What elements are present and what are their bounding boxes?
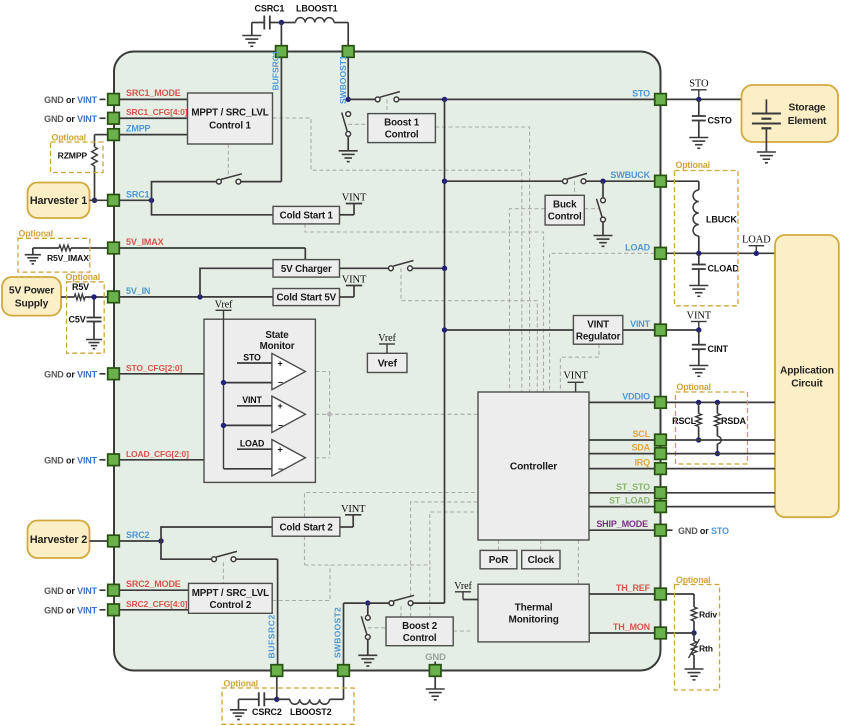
svg-text:Control 1: Control 1 (209, 121, 251, 132)
capacitor CSRC2 (239, 698, 259, 700)
svg-text:RZMPP: RZMPP (58, 151, 88, 161)
wire ST_LOAD (589, 506, 655, 508)
ground below CSRC2 (230, 709, 247, 711)
svg-text:Vref: Vref (378, 358, 398, 370)
wire BUFSRC1 column (280, 57, 282, 181)
svg-text:Buck: Buck (553, 200, 577, 211)
switch buck (563, 179, 568, 184)
svg-text:Vref: Vref (215, 300, 233, 311)
inductor LBUCK (693, 190, 699, 236)
wire VDDIO external (666, 401, 775, 403)
wire STO comp minus (224, 382, 272, 384)
ground below CINT (689, 365, 708, 367)
wire BUFSRC1 to top node (280, 23, 282, 46)
pin SRC2 (108, 535, 120, 547)
MPPT/SRC_LVL control 2 box (189, 583, 273, 613)
wire LOAD comp minus (224, 468, 272, 470)
ground below Rth (685, 668, 704, 670)
node at CSRC1/LBOOST1 junction (279, 20, 284, 25)
node vref bus 1 (221, 380, 226, 385)
resistor RSCL (698, 402, 700, 413)
wire SRC1_CFG (119, 117, 187, 119)
wire SDA external (666, 453, 775, 455)
pin LOAD (655, 248, 667, 260)
svg-text:TH_MON: TH_MON (613, 622, 650, 632)
capacitor CSRC1 (252, 22, 264, 24)
pin 5V_IN (108, 291, 120, 303)
svg-text:STO_CFG[2:0]: STO_CFG[2:0] (126, 363, 182, 373)
node LBUCK/CLOAD (696, 251, 701, 256)
wire ZMPP (119, 134, 187, 136)
svg-text:VINT: VINT (630, 319, 651, 329)
svg-text:Optional: Optional (19, 229, 53, 239)
resistor RSDA (716, 402, 718, 413)
boost 1 control box (368, 114, 436, 143)
node SRC1 (149, 198, 154, 203)
svg-text:SCL: SCL (632, 429, 650, 439)
svg-text:LOAD_CFG[2:0]: LOAD_CFG[2:0] (126, 449, 189, 459)
pin ZMPP (108, 129, 120, 141)
svg-text:GND or VINT: GND or VINT (44, 369, 98, 379)
svg-text:Boost 1: Boost 1 (384, 118, 420, 129)
svg-text:ZMPP: ZMPP (126, 124, 151, 134)
svg-text:5V Power: 5V Power (9, 286, 54, 297)
svg-text:LOAD: LOAD (742, 235, 771, 246)
cold start 5V box (273, 289, 340, 306)
PoR box (480, 550, 517, 568)
battery symbol (765, 99, 767, 113)
internal STO rail (444, 99, 446, 603)
MPPT/SRC_LVL control 1 box (188, 93, 273, 144)
wire SWBUCK external (666, 180, 699, 182)
switch 5V charger to rail (340, 267, 389, 269)
5V power supply box (2, 277, 61, 316)
thermal monitoring box (478, 584, 589, 642)
svg-text:Optional: Optional (52, 133, 86, 143)
svg-text:GND or VINT: GND or VINT (44, 605, 98, 615)
pin STO_CFG (108, 368, 120, 380)
svg-text:+: + (278, 445, 283, 455)
wire TH_MON external (666, 632, 694, 634)
node RZMPP to harvester wire (92, 198, 97, 203)
pin SRC2_CFG (108, 604, 120, 616)
resistor R5V (61, 296, 74, 298)
svg-text:SWBOOST2: SWBOOST2 (333, 607, 343, 658)
node RSDA top (715, 400, 720, 405)
pin SRC1 (108, 195, 120, 207)
svg-text:+: + (278, 359, 283, 369)
svg-text:MPPT / SRC_LVL: MPPT / SRC_LVL (191, 108, 268, 119)
svg-text:LBOOST2: LBOOST2 (290, 707, 332, 717)
pin SWBOOST2 (338, 665, 350, 677)
svg-text:LBOOST1: LBOOST1 (296, 4, 338, 14)
ground below boost2 switch (358, 654, 377, 656)
wire IRQ external (666, 468, 775, 470)
pin STO (655, 94, 667, 106)
switch boost2 to ground (365, 615, 370, 620)
application circuit box (775, 235, 839, 517)
svg-text:GND or VINT: GND or VINT (44, 586, 98, 596)
svg-text:RSDA: RSDA (721, 416, 747, 426)
node vref bus 2 (221, 423, 226, 428)
wire SRC2 (119, 540, 161, 542)
pin VINT (655, 324, 667, 336)
cold start 2 box (272, 517, 340, 536)
pin SHIP_MODE (655, 524, 667, 536)
pin 5V_IMAX (108, 242, 120, 254)
svg-text:VINT: VINT (242, 395, 262, 405)
inductor LBOOST1 (281, 22, 295, 24)
ground below CLOAD (689, 285, 708, 287)
svg-text:Control: Control (403, 633, 437, 644)
harvester 2 box (28, 521, 90, 559)
svg-text:–: – (278, 377, 283, 387)
switch boost 2 (389, 601, 394, 606)
svg-text:–: – (278, 463, 283, 473)
svg-text:Cold Start 1: Cold Start 1 (280, 211, 334, 222)
svg-text:Controller: Controller (510, 462, 557, 473)
pin BUFSRC2 (271, 665, 283, 677)
svg-text:STO: STO (632, 88, 650, 98)
svg-text:GND or VINT: GND or VINT (44, 114, 98, 124)
ground below storage element (757, 151, 776, 153)
ground below GND pin (434, 676, 436, 689)
node LOAD external (754, 251, 759, 256)
svg-text:Optional: Optional (66, 272, 100, 282)
svg-text:PoR: PoR (489, 555, 509, 566)
pin TH_MON (655, 627, 667, 639)
svg-text:CSRC2: CSRC2 (252, 707, 282, 717)
node RSCL top (696, 400, 701, 405)
pin SRC1_CFG (108, 112, 120, 124)
svg-text:IRQ: IRQ (634, 458, 650, 468)
VINT regulator box (573, 316, 622, 345)
svg-text:Rdiv: Rdiv (699, 610, 717, 620)
wire ST_STO (589, 492, 655, 494)
svg-text:SWBUCK: SWBUCK (610, 170, 650, 180)
svg-text:SRC1_MODE: SRC1_MODE (126, 88, 181, 98)
wire 5V_IMAX (119, 247, 305, 249)
svg-text:GND or VINT: GND or VINT (44, 455, 98, 465)
node VINT rail (442, 327, 447, 332)
svg-text:Control: Control (385, 130, 419, 141)
svg-text:Thermal: Thermal (515, 603, 553, 614)
svg-text:LOAD: LOAD (240, 439, 264, 449)
wire ST_STO external (666, 492, 775, 494)
svg-text:VINT: VINT (341, 504, 366, 515)
svg-text:Control 2: Control 2 (210, 600, 252, 611)
svg-text:Optional: Optional (677, 382, 711, 392)
wire harvester2 to SRC2 pin (90, 540, 108, 542)
svg-text:Cold Start 5V: Cold Start 5V (276, 293, 336, 304)
Vref box (367, 353, 407, 372)
thermistor Rth (693, 633, 695, 641)
pin SWBOOST1 (342, 46, 354, 58)
state monitor box (204, 319, 315, 482)
svg-text:VINT: VINT (587, 319, 609, 330)
svg-text:Monitor: Monitor (260, 341, 295, 352)
wire SRC2_MODE (119, 589, 188, 591)
resistor R5V_IMAX (33, 247, 59, 249)
wire SWBOOST1 column (347, 57, 349, 99)
svg-text:SRC1: SRC1 (126, 189, 150, 199)
node SWBOOST2 (365, 600, 370, 605)
svg-text:Element: Element (788, 116, 827, 127)
storage element box (742, 85, 839, 142)
pin SRC2_MODE (108, 584, 120, 596)
svg-text:–: – (278, 420, 283, 430)
wire 5V_IN (119, 296, 273, 298)
resistor Rdiv (693, 601, 695, 607)
svg-text:Boost 2: Boost 2 (402, 621, 438, 632)
svg-text:Regulator: Regulator (576, 331, 621, 342)
node CSRC2/LBOOST2 (274, 697, 279, 702)
VINT flag at cold start 1 (340, 214, 355, 216)
pin IRQ (655, 463, 667, 475)
comparator STO (272, 353, 306, 389)
wire SRC2 down-branch (161, 541, 211, 559)
svg-text:SWBOOST1: SWBOOST1 (338, 55, 348, 104)
pin VDDIO (655, 397, 667, 409)
node Rdiv/Rth (691, 630, 696, 635)
capacitor C5V (93, 297, 95, 318)
svg-text:GND or STO: GND or STO (678, 526, 729, 536)
wire TH_REF external (666, 593, 694, 595)
wire STO external (666, 98, 742, 100)
svg-text:VINT: VINT (342, 275, 367, 286)
ground below CSTO (689, 137, 708, 139)
wire harvester1 to SRC1 pin (90, 199, 108, 201)
wire IRQ (589, 468, 655, 470)
svg-text:SRC2_MODE: SRC2_MODE (126, 579, 181, 589)
node SRC2 (158, 538, 163, 543)
svg-text:VINT: VINT (687, 310, 712, 321)
wire LOAD_CFG (119, 459, 204, 461)
wire SDA (589, 453, 655, 455)
wire VINT regulator row (445, 329, 574, 331)
svg-text:STO: STO (689, 79, 709, 90)
svg-text:R5V_IMAX: R5V_IMAX (47, 253, 89, 263)
ground below buck switch (594, 235, 613, 237)
node R5V/C5V (91, 294, 96, 299)
svg-text:5V_IMAX: 5V_IMAX (126, 237, 164, 247)
svg-text:STO: STO (243, 353, 261, 363)
svg-text:VDDIO: VDDIO (622, 391, 650, 401)
node SWBOOST1 (346, 97, 351, 102)
svg-text:Harvester 2: Harvester 2 (30, 534, 87, 546)
pin SDA (655, 448, 667, 460)
switch buck to ground (602, 181, 604, 197)
VINT flag at cold start 2 (340, 526, 353, 528)
wire TH_REF (589, 593, 655, 595)
harvester 1 box (28, 183, 90, 219)
svg-text:Supply: Supply (15, 298, 49, 309)
wire BUFSRC2 column (277, 559, 279, 665)
svg-text:SHIP_MODE: SHIP_MODE (596, 519, 648, 529)
node 5V rail (442, 266, 447, 271)
svg-text:Rth: Rth (699, 644, 713, 654)
svg-text:BUFSRC1: BUFSRC1 (271, 50, 281, 90)
wire SWBUCK row (445, 180, 563, 182)
svg-text:Storage: Storage (789, 102, 826, 113)
svg-text:CSTO: CSTO (708, 116, 732, 126)
boost 2 control box (386, 617, 453, 646)
svg-text:TH_REF: TH_REF (616, 583, 651, 593)
svg-text:5V_IN: 5V_IN (126, 286, 150, 296)
svg-text:VINT: VINT (342, 193, 367, 204)
pin ST_STO (655, 487, 667, 499)
wire STO_CFG (119, 373, 204, 375)
switch boost1 to ground (346, 112, 351, 117)
wire SWBOOST2 column (343, 603, 345, 665)
svg-text:Optional: Optional (676, 160, 710, 170)
svg-text:SDA: SDA (631, 443, 650, 453)
node VINT external (696, 327, 701, 332)
clock box (522, 550, 560, 568)
svg-text:LBUCK: LBUCK (706, 215, 737, 225)
comparator VINT (272, 396, 306, 432)
svg-text:BUFSRC2: BUFSRC2 (267, 614, 277, 658)
pin SWBUCK (655, 175, 667, 187)
svg-text:C5V: C5V (69, 315, 86, 325)
svg-text:GND: GND (425, 652, 446, 663)
pin BUFSRC1 (276, 46, 288, 58)
wire BUFSRC2 external (276, 676, 278, 699)
svg-text:Monitoring: Monitoring (509, 615, 559, 626)
svg-text:Optional: Optional (676, 575, 710, 585)
svg-text:SRC2: SRC2 (126, 530, 150, 540)
wire VINT comp minus (224, 424, 272, 426)
svg-text:ST_STO: ST_STO (616, 482, 650, 492)
svg-text:SRC2_CFG[4:0]: SRC2_CFG[4:0] (126, 599, 188, 609)
5V charger box (273, 260, 340, 278)
svg-text:5V Charger: 5V Charger (281, 264, 332, 275)
pin LOAD_CFG (108, 454, 120, 466)
wire SRC2_CFG (119, 609, 188, 611)
node STO rail top (442, 97, 447, 102)
pin SCL (655, 434, 667, 446)
wire TH_MON (589, 632, 655, 634)
svg-text:CINT: CINT (708, 344, 729, 354)
wire SRC1 (119, 199, 151, 201)
wire SRC1 up-branch (152, 182, 217, 201)
pin SRC1_MODE (108, 94, 120, 106)
node RSDA bottom (715, 451, 720, 456)
ground for CSRC1 (251, 23, 253, 36)
node SWBUCK (600, 179, 605, 184)
svg-text:CSRC1: CSRC1 (255, 4, 285, 14)
svg-text:Application: Application (780, 365, 834, 376)
svg-text:MPPT / SRC_LVL: MPPT / SRC_LVL (192, 588, 269, 599)
wire VDDIO (589, 401, 655, 403)
svg-text:Cold Start 2: Cold Start 2 (279, 522, 333, 533)
inductor LBOOST2 (277, 698, 290, 700)
wire ST_LOAD external (666, 506, 775, 508)
node SWBUCK rail (442, 179, 447, 184)
svg-text:LOAD: LOAD (625, 242, 651, 252)
wire SRC2 to cold start 2 (161, 527, 272, 541)
dashed control signal lines (273, 118, 522, 392)
svg-text:CLOAD: CLOAD (708, 264, 740, 274)
svg-text:Harvester 1: Harvester 1 (30, 195, 87, 207)
wire SHIP_MODE (589, 529, 655, 531)
switch SRC1 to BUFSRC1 (217, 179, 222, 184)
svg-text:Circuit: Circuit (791, 378, 823, 389)
wire LOAD external (666, 252, 775, 254)
wire VINT external (666, 329, 699, 331)
buck control box (545, 195, 584, 225)
svg-text:Control: Control (548, 212, 582, 223)
capacitor CLOAD (698, 253, 700, 264)
svg-text:VINT: VINT (563, 371, 588, 382)
wire SRC1 down-branch to cold start 1 (152, 200, 274, 215)
node STO external (696, 97, 701, 102)
wire SCL external (666, 439, 775, 441)
svg-text:ST_LOAD: ST_LOAD (609, 496, 651, 506)
wire SRC1_MODE (119, 98, 187, 100)
cold start 1 box (273, 206, 340, 224)
pin TH_REF (655, 588, 667, 600)
switch boost 1 (348, 98, 375, 100)
capacitor CINT (698, 330, 700, 345)
svg-text:R5V: R5V (72, 282, 89, 292)
resistor RZMPP (95, 134, 108, 136)
VINT flag at cold start 5V (340, 296, 355, 298)
svg-text:Vref: Vref (378, 333, 396, 344)
svg-text:+: + (278, 401, 283, 411)
svg-text:Optional: Optional (224, 679, 258, 689)
svg-text:State: State (265, 330, 289, 341)
node RSCL bottom (696, 437, 701, 442)
capacitor CSTO (698, 99, 700, 116)
pin GND (429, 665, 441, 677)
wire 5V_IN to charger (200, 268, 273, 297)
comparator LOAD (272, 440, 306, 476)
ground below boost1 switch (339, 150, 358, 152)
svg-text:Vref: Vref (454, 581, 472, 592)
svg-text:SRC1_CFG[4:0]: SRC1_CFG[4:0] (126, 107, 188, 117)
wire SCL (589, 439, 655, 441)
label GND or STO (666, 529, 672, 531)
node 5V_IN (197, 294, 202, 299)
svg-text:GND or VINT: GND or VINT (44, 95, 98, 105)
switch SRC2 to BUFSRC2 (212, 557, 217, 562)
svg-text:Clock: Clock (528, 555, 555, 566)
pin ST_LOAD (655, 501, 667, 513)
controller box (478, 392, 589, 540)
PMIC chip body (114, 52, 661, 671)
